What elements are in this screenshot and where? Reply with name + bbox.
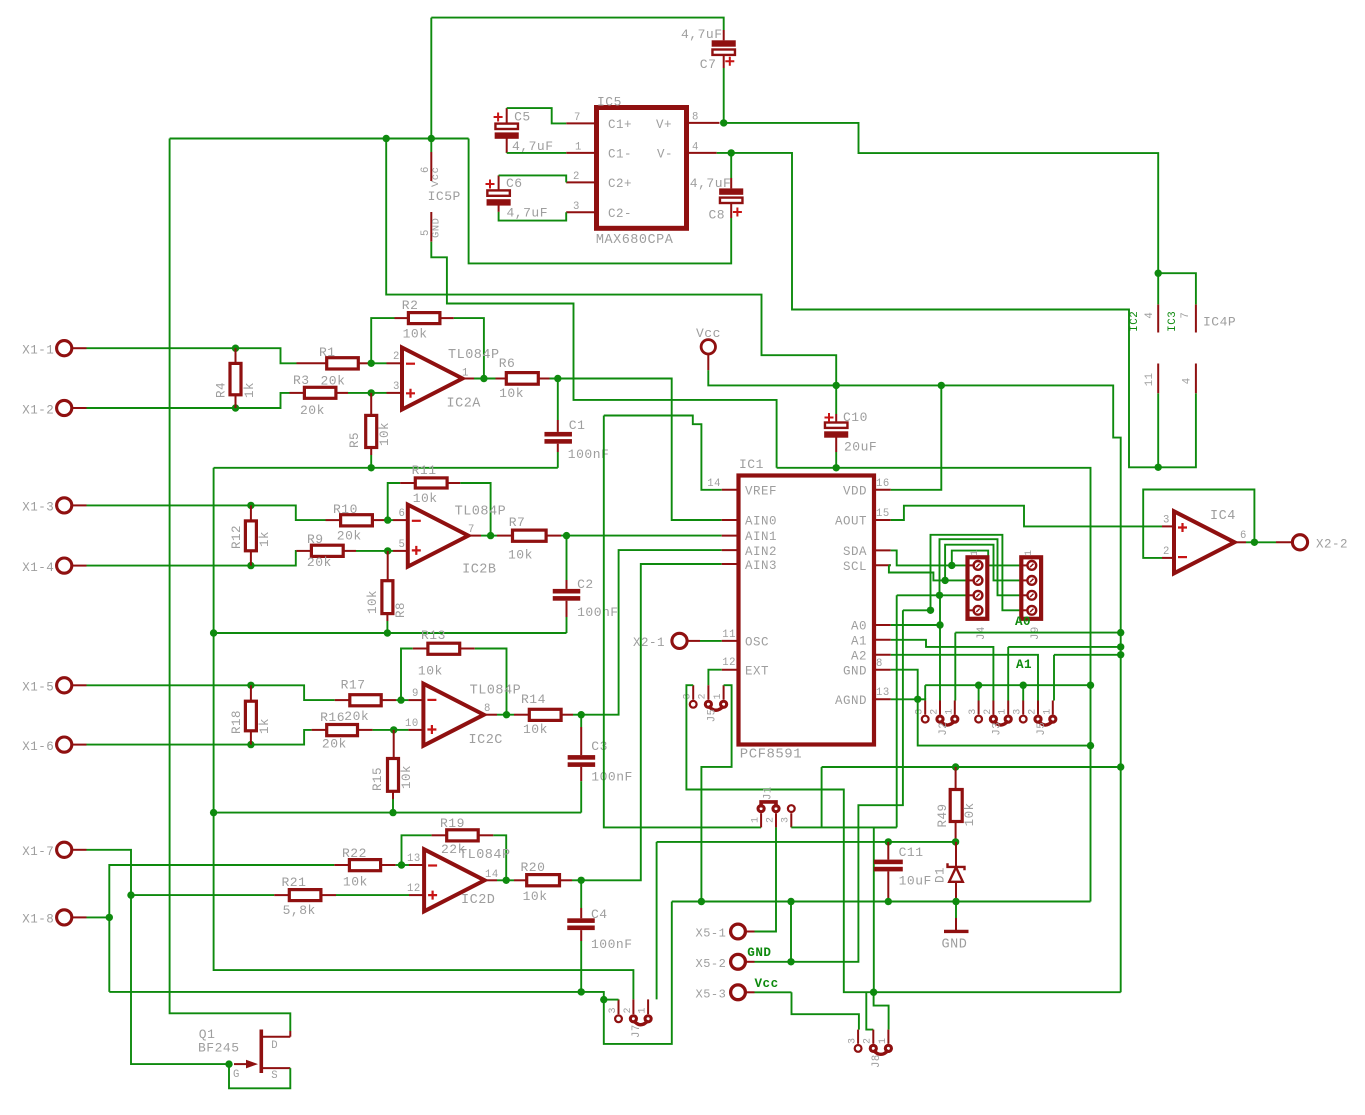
svg-text:2: 2 [1163,546,1170,558]
svg-text:X1-3: X1-3 [22,501,54,515]
svg-text:J7: J7 [631,1024,643,1038]
jumper J7 [615,1015,622,1022]
svg-text:R20: R20 [521,860,546,875]
op-amp IC2C triangle [423,684,484,746]
svg-text:20k: 20k [307,555,332,570]
svg-text:2: 2 [1028,708,1039,715]
junction C11 bottom [885,898,892,905]
svg-text:C5: C5 [514,109,531,124]
svg-text:11: 11 [722,629,736,641]
wire C8 top to V- [730,153,732,178]
wire outA [474,378,496,380]
resistor R1 20k [297,362,327,364]
IC1 pin 12 EXT [722,669,739,671]
wire IC5P pin5 gnd path [431,242,776,468]
resistor R21 body [289,890,321,901]
svg-text:IC2A: IC2A [447,397,482,412]
wire agnd trunk [214,468,634,1000]
svg-text:C1-: C1- [608,148,632,162]
capacitor C7 body [712,40,736,46]
svg-text:J5: J5 [1036,722,1048,736]
resistor R13 body [428,643,460,654]
svg-text:IC2: IC2 [1129,311,1141,332]
svg-text:X1-6: X1-6 [22,740,54,754]
resistor R4 body [230,363,241,394]
resistor R4 1k [235,348,237,363]
wire gnd8 [891,670,1091,746]
capacitor C8 body [719,188,743,194]
pin 12 stub IC2D [409,894,424,896]
pin 5 stub IC2B [393,550,408,552]
jumper J8 [855,1045,862,1052]
junction R15 AGND [389,809,396,816]
resistor R9 20k [296,550,311,552]
svg-text:R13: R13 [421,628,446,643]
junction J3 pad3 gnd [975,682,982,689]
svg-text:X5-1: X5-1 [696,927,727,941]
pin 13 stub IC2D [409,864,424,866]
wire X1-4 to R12/R9 [87,551,297,566]
svg-text:2: 2 [930,708,941,715]
junction outC R13 [503,711,510,718]
op-amp IC4 triangle [1174,511,1235,573]
svg-text:R10: R10 [333,502,358,517]
svg-text:R11: R11 [412,463,437,478]
wire outC to AIN2 [581,550,722,715]
svg-text:GND: GND [747,946,771,960]
junction Vcc VDD [938,382,945,389]
svg-text:R19: R19 [440,816,465,831]
svg-text:R17: R17 [341,677,366,692]
junction J4 pad3 [936,592,943,599]
wire R13 right [475,649,507,715]
junction op-amp A pin2 [368,360,375,367]
pin 9 stub IC2C [408,699,423,701]
svg-text:8: 8 [692,112,699,124]
IC4 pin3 stub [1162,525,1174,527]
junction V+ at IC4P [1155,270,1162,277]
wire vcc sym [708,370,836,385]
svg-text:C10: C10 [843,410,868,425]
wire X1-8 stub [87,916,110,918]
IC5 pin 2 C2+ [566,181,596,183]
IC1 pin AIN2 [722,549,739,551]
op-amp IC2B triangle [408,505,469,567]
svg-text:3: 3 [781,816,792,823]
jumper J5 [1020,716,1027,723]
svg-text:R12: R12 [230,525,244,549]
wire vcc j3 [1008,646,1120,648]
svg-text:R21: R21 [282,875,307,890]
wire x52 [755,961,792,963]
junction Q1 gate [225,1060,232,1067]
svg-text:4: 4 [1144,312,1156,319]
svg-text:4,7uF: 4,7uF [690,176,732,191]
svg-text:AGND: AGND [835,694,867,708]
svg-text:10k: 10k [366,590,380,614]
svg-text:16: 16 [876,478,890,490]
wire j1 pad2 [755,827,777,931]
wire pin6 [388,519,393,521]
pin 6 stub IC2B [393,519,408,521]
IC4P IC3 pin7 stub [1195,305,1197,333]
resistor R5 10k [370,393,372,416]
resistor R12 body [245,521,256,551]
svg-text:2: 2 [983,708,994,715]
wire ic4 fb [1143,490,1254,558]
pad X5-2 [731,954,746,969]
wire X2-1 to OSC [700,640,722,642]
resistor R15 10k [393,730,395,759]
svg-text:IC2C: IC2C [469,733,503,748]
svg-text:7: 7 [468,524,475,536]
junction D1 bottom [952,898,959,905]
svg-text:R1: R1 [319,345,336,360]
op-amp IC2A triangle [402,348,463,410]
svg-text:IC5: IC5 [597,95,622,110]
resistor R49 10k [955,767,957,790]
svg-text:C8: C8 [709,208,726,223]
wire a0 row3 [897,594,968,596]
svg-text:R49: R49 [936,803,950,827]
IC5 pin 1 C1- [566,152,596,154]
resistor R7 10k [497,535,513,537]
junction outD C4 [578,877,585,884]
junction X5-2 gnd [787,898,794,905]
svg-text:IC3: IC3 [1167,311,1179,332]
svg-text:14: 14 [485,869,499,881]
svg-text:BF245: BF245 [198,1041,240,1056]
svg-text:10k: 10k [418,663,443,678]
svg-text:R6: R6 [499,356,516,371]
wire vcc j2 [955,632,1120,634]
svg-text:C1: C1 [569,418,586,433]
IC5 pin 3 C2- [566,211,596,213]
wire outB [481,535,497,537]
junction vcc rail 2 [1117,643,1124,650]
svg-text:VDD: VDD [843,485,867,499]
wire j3 pad3 drop [978,685,980,700]
svg-text:3: 3 [848,1037,859,1044]
wire R8 bottom [386,621,388,633]
junction X1-6 R18 bottom [247,741,254,748]
wire C10 top [835,385,837,414]
resistor R16 body [327,725,358,736]
pad X5-1 [731,924,746,939]
svg-text:7: 7 [574,112,581,124]
capacitor C2 body [553,589,581,594]
svg-text:10k: 10k [499,386,524,401]
svg-text:Vcc: Vcc [696,326,721,341]
svg-text:4,7uF: 4,7uF [512,139,554,154]
resistor R6 body [506,373,538,385]
svg-text:13: 13 [407,853,421,865]
wire J8 pad1 riser [873,827,875,992]
junction C10 GND [833,464,840,471]
IC1 pin 13 AGND [874,698,891,700]
resistor R16 20k [312,729,327,731]
svg-text:2: 2 [393,351,400,363]
wire x53 line [755,991,792,993]
svg-text:2: 2 [698,693,709,700]
svg-text:10k: 10k [378,422,392,446]
op-amp A output wire [463,378,475,380]
svg-text:AIN3: AIN3 [745,559,777,573]
IC1 pin A1 [874,639,891,641]
junction outB R11 [487,532,494,539]
svg-text:OSC: OSC [745,636,769,650]
junction outD R19 [503,877,510,884]
wire R16 to pin10 [373,729,394,731]
op-amp B output [468,535,481,537]
svg-text:R3: R3 [293,373,310,388]
resistor R22 10k [334,864,349,866]
pin 3 stub IC2A [387,392,403,394]
junction op-amp A pin3 [368,389,375,396]
IC1 pin 14 VREF [722,489,739,491]
wire scl [889,564,891,566]
resistor R8 10k [387,551,389,581]
svg-text:IC2B: IC2B [462,563,496,578]
junction gnd vertical [1087,682,1094,689]
svg-text:GND: GND [843,664,867,678]
svg-text:20k: 20k [300,403,325,418]
IC4P IC3 pin4 stub [1195,364,1197,394]
capacitor C3 body [568,755,596,760]
IC5 pin 7 C1+ [566,122,596,124]
junction X1-8 [106,914,113,921]
junction X1-7 R21 [127,891,134,898]
wire a2 [891,655,1038,701]
wire a0 vertical [939,595,941,700]
wire V- to IC2 pin11 [1157,393,1159,467]
svg-text:J5: J5 [707,708,719,722]
svg-text:10: 10 [405,718,419,730]
resistor R3 20k [290,392,305,394]
wire j5l pad3 [686,685,1120,992]
svg-text:VREF: VREF [745,485,777,499]
svg-text:C2-: C2- [608,207,632,221]
capacitor C11 body [874,860,903,865]
svg-text:1k: 1k [258,531,272,547]
svg-text:1k: 1k [243,382,257,398]
svg-text:3: 3 [608,1007,619,1014]
wire gnd loop j7 [604,902,672,1044]
wire ic4 out [1246,541,1276,543]
junction op-amp D pin13 [398,861,405,868]
wire C4 bottom [580,941,582,992]
svg-text:TL084P: TL084P [459,848,511,863]
junction Vcc-IC5P pin6 [428,135,435,142]
pad X2-2 [1292,535,1307,550]
svg-text:MAX680CPA: MAX680CPA [596,233,674,248]
svg-text:10k: 10k [403,327,428,342]
wire C5 bottom to pin1 [507,152,567,154]
junction J4 pad4 [927,607,934,614]
svg-text:20k: 20k [344,709,369,724]
wire C3 top [580,715,582,727]
IC1 pin AIN1 [722,535,739,537]
svg-text:A0: A0 [1015,615,1031,629]
wire gnd pads rail [925,684,1090,686]
wire vcc j5 drop [1053,655,1055,701]
junction outA C1 [554,375,561,382]
resistor R17 body [350,695,381,706]
junction R49 D1 [952,838,959,845]
wire V+ rail [724,123,1158,305]
wire pin10 [394,729,409,731]
svg-text:2: 2 [863,1037,874,1044]
svg-text:1: 1 [638,1007,649,1014]
junction vcc rail 1 [1117,629,1124,636]
pin 2 stub IC2A [387,362,403,364]
svg-text:6: 6 [399,508,406,520]
resistor R5 body [366,415,377,447]
wire Vcc C7 top [431,18,723,30]
svg-text:R15: R15 [371,767,385,791]
svg-text:2: 2 [623,1007,634,1014]
svg-text:14: 14 [707,478,721,490]
junction C4 gnd [578,988,585,995]
wire R21 to pin12 [336,894,409,896]
IC5P power symbol pin 6 Vcc [430,152,432,181]
wire pin9 [396,699,408,701]
resistor R11 body [415,478,447,488]
wire C2 bottom [566,617,568,633]
wire R19 right [493,835,506,880]
junction X1-4 R12 bottom [247,562,254,569]
svg-text:R14: R14 [521,692,546,707]
junction op-amp C pin10 [390,726,397,733]
svg-text:1: 1 [944,708,955,715]
diode D1 zener [955,842,957,866]
wire R20 to dot [572,879,581,881]
IC4 pin2 stub [1162,557,1174,559]
svg-text:R18: R18 [230,710,244,734]
svg-text:IC4: IC4 [1210,509,1236,524]
svg-text:3: 3 [393,381,400,393]
wire gnd rail right [777,468,1091,902]
svg-text:GND: GND [430,218,442,238]
wire C6 top to pin2 [499,175,567,182]
pad X5-3 [731,985,746,1000]
junction J5 pad3 gnd [1020,682,1027,689]
svg-text:Vcc: Vcc [755,977,779,991]
svg-text:GND: GND [942,938,968,953]
wire C6 bottom to pin3 [499,212,567,221]
transistor Q1 BF245 [259,1030,263,1074]
wire Q1 source to gate [229,1064,290,1088]
wire j7 pad3 [604,999,619,1001]
wire Vcc vertical to IC5P junction [430,18,432,139]
pad X1-6 [57,737,72,752]
wire j8 pad2 drop [866,992,873,1029]
pad X1-2 [57,400,72,415]
wire vcc j5 [1054,654,1121,656]
svg-text:7: 7 [1180,312,1192,319]
svg-text:G: G [233,1069,240,1081]
svg-text:X1-2: X1-2 [22,403,54,417]
junction gnd rail link [1087,742,1094,749]
wire R21 row [131,894,274,896]
svg-text:1: 1 [1024,549,1035,556]
wire ext [708,670,721,686]
svg-text:9: 9 [412,688,419,700]
svg-text:IC2D: IC2D [461,893,495,908]
op-amp D output [485,879,497,881]
wire V- rail [717,153,1196,467]
svg-text:A1: A1 [1016,658,1032,672]
wire vref vertical to J1 pad1 [604,416,761,828]
svg-text:A2: A2 [851,649,867,663]
op-amp C output [484,714,497,716]
junction op-amp C pin9 [397,696,404,703]
resistor R17 20k [335,699,350,701]
pad X1-5 [57,678,72,693]
svg-text:J1: J1 [763,786,775,800]
svg-text:3: 3 [1013,708,1024,715]
svg-text:5: 5 [399,539,406,551]
wire R6 to AIN0 [550,379,722,521]
IC1 pin A2 [874,654,891,656]
wire R3 to pin3 [348,392,371,394]
svg-text:1: 1 [878,1037,889,1044]
junction V- at IC4P [1155,464,1162,471]
wire aout [891,506,1162,527]
svg-text:3: 3 [683,693,694,700]
svg-text:4,7uF: 4,7uF [507,206,549,221]
svg-text:X1-1: X1-1 [22,344,54,358]
capacitor C11 10uF [887,842,889,860]
resistor R18 body [245,701,256,731]
wire X1-7 down to gate [87,850,230,1064]
wire outC [497,714,514,716]
svg-text:X2-2: X2-2 [1316,538,1348,552]
pad X1-7 [57,842,72,857]
wire C4 top [580,880,582,908]
svg-text:S: S [271,1070,278,1082]
svg-text:J3: J3 [991,722,1003,736]
resistor R15 body [388,759,399,792]
wire X1-5 to R18/R17 [87,685,335,700]
pad X1-8 [57,910,72,925]
svg-text:5,8k: 5,8k [283,903,316,918]
wire X1-1 to R4/R1 [87,348,297,363]
wire agnd rail C [214,812,582,814]
wire vcc j2 drop [954,633,956,701]
svg-text:10k: 10k [963,802,977,826]
wire C3 bottom [580,781,582,812]
wire loop3 [940,539,1022,595]
wire loop4 [931,535,1022,611]
jumper J5 (EXT) [690,701,697,708]
wire R13 left [401,649,413,701]
IC1 pin 8 GND [874,669,891,671]
capacitor C10 body [825,423,848,428]
svg-text:C6: C6 [506,176,523,191]
svg-text:EXT: EXT [745,664,769,678]
junction AGND trunk B [210,629,217,636]
wire row4 left [903,609,931,611]
wire R7 to AIN1 [561,535,722,537]
wire X1-2 to R4/R3 [87,393,290,408]
svg-text:J2: J2 [938,722,950,736]
svg-text:C7: C7 [700,57,717,72]
svg-text:12: 12 [722,657,736,669]
pad X1-4 [57,558,72,573]
wire vdd [891,385,942,489]
svg-text:10k: 10k [400,765,414,789]
